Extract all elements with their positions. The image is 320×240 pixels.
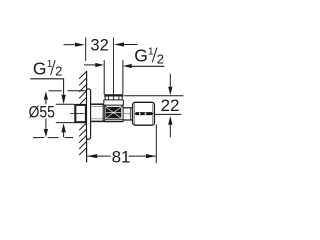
knob rounded body [133,102,155,125]
dim 32 left arrow [75,43,85,47]
dim 22 down arrow [169,74,171,87]
knurl box bottom [104,121,123,123]
neck top [123,107,133,109]
dim O55 down arrow [45,119,47,131]
knurl chamfers [105,105,107,107]
outlet left callout arrow [84,64,96,66]
dim 81 line left segment [87,155,110,157]
svg-text:2: 2 [157,52,164,67]
dim 32 right leader [124,44,138,46]
svg-text:1: 1 [47,58,53,70]
escutcheon plate side view [87,89,91,139]
compression nut top cap [105,94,123,96]
dim O55 bottom extension line [33,137,44,139]
dim 81 right tick [155,124,157,163]
valve body inner highlight bottom [91,118,103,120]
knurl box sides [104,105,106,122]
G 1/2 left underline [30,78,64,80]
knurl lower line [105,119,123,121]
valve body edge vertical [102,104,104,121]
knob inner chamfer lines [134,104,136,124]
label G 1/2 right [134,46,164,67]
G 1/2 left leader [63,79,65,96]
neck vertical [130,108,132,120]
svg-text:2: 2 [55,64,62,79]
inlet centerline dash [70,113,84,115]
G 1/2 right underline [131,65,165,67]
nut lower flange sides [103,100,105,105]
label G 1/2 left [33,58,62,79]
dim 81 right arrow [146,154,156,158]
valve body outer top [91,103,104,105]
svg-text:Ø55: Ø55 [29,104,55,122]
knurl dark square [106,107,122,119]
svg-text:G: G [33,59,47,79]
inlet union box in wall [75,105,86,122]
outlet thread right edge [122,60,124,94]
inlet thread up arrow [61,123,65,132]
wall hatching upper [79,72,86,105]
G 1/2 right arrow left [123,64,132,68]
dim 32 left tick [85,38,87,62]
valve body outer bottom [91,120,105,122]
svg-text:G: G [134,46,148,66]
outlet centerline [113,38,115,100]
nut upper sides [104,97,106,100]
outlet thread left edge [103,60,105,94]
inlet pipe top line [56,103,75,105]
dim 32 left leader [64,44,75,46]
wall line [86,71,88,163]
knob axis line to 22 extension [154,113,181,115]
svg-text:32: 32 [90,37,108,55]
svg-text:22: 22 [161,96,180,115]
inlet pipe bottom line [56,122,75,124]
wall hatching lower [79,123,86,155]
dim 81 line right segment [129,155,156,157]
dim O55 top extension line [49,90,62,92]
nut step line [104,99,124,101]
G 1/2 left arrow down [61,95,65,104]
neck centerline dash [123,113,130,115]
neck bottom [123,119,133,121]
dim 81 left arrow [87,154,97,158]
svg-text:81: 81 [112,148,131,167]
svg-text:1: 1 [148,46,154,58]
dim 22 top extension line [124,95,184,97]
dim 22 up arrow [168,116,172,125]
dim 32 right arrow [114,42,124,46]
knob slot [134,112,153,115]
knurl white X [106,107,121,118]
valve body inner highlight top [91,106,103,108]
nut flange bottom [104,104,124,106]
nut inner verticals [107,97,109,100]
dim O55 up arrow [44,91,48,99]
